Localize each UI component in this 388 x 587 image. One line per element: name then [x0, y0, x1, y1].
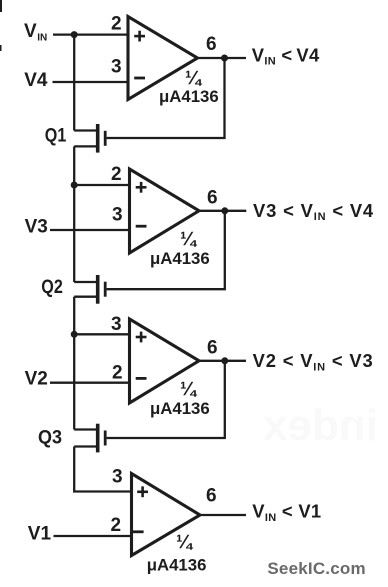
svg-text:6: 6: [206, 486, 217, 507]
svg-text:IN: IN: [37, 33, 47, 44]
svg-text:¼: ¼: [176, 532, 194, 553]
wire Q1 source to U2 rail: [73, 146, 75, 185]
wire V1 to U4 -input: [54, 535, 132, 537]
wire U3 output to Q3 gate: [107, 361, 225, 438]
svg-text:3: 3: [111, 314, 122, 335]
svg-text:V2 < VIN < V3: V2 < VIN < V3: [253, 350, 374, 373]
Q3 label: [38, 427, 62, 448]
U4 pin 3 label: [112, 467, 123, 488]
svg-text:¼: ¼: [180, 229, 198, 250]
op-amp U4: [132, 474, 201, 556]
transistor Q1: [74, 124, 105, 153]
U3 pin 2 label: [112, 363, 123, 384]
junction dot U3 +input: [71, 331, 78, 338]
svg-text:VIN < V1: VIN < V1: [252, 501, 321, 524]
SeekIC.com watermark: [267, 559, 365, 578]
svg-text:Q1: Q1: [45, 125, 67, 146]
U2 pin 3 label: [112, 205, 123, 226]
svg-text:2: 2: [111, 164, 122, 185]
svg-text:μA4136: μA4136: [147, 556, 207, 575]
svg-text:6: 6: [207, 338, 218, 359]
transistor Q2: [74, 275, 105, 304]
node result4 label VIN < V1: [252, 501, 321, 524]
U4 pin 2 label: [111, 515, 122, 536]
junction dot U3 output: [221, 357, 228, 364]
U1 pin 2 label: [111, 14, 122, 35]
svg-text:μA4136: μA4136: [159, 87, 219, 106]
junction dot U1 output: [221, 55, 228, 62]
node V3 label: [25, 217, 48, 238]
node result2 label V3 < VIN < V4: [253, 200, 374, 223]
svg-text:SeekIC.com: SeekIC.com: [267, 559, 365, 578]
U1 pin 3 label: [111, 57, 122, 78]
svg-text:2: 2: [111, 14, 122, 35]
svg-text:Q2: Q2: [41, 277, 63, 298]
svg-text:2: 2: [111, 515, 122, 536]
node V2 label: [25, 369, 48, 390]
svg-text:V3 < VIN < V4: V3 < VIN < V4: [253, 200, 374, 223]
op-amp U3: [130, 319, 200, 403]
ghost watermark (mirrored index text showing through page): [263, 401, 378, 450]
wire U2 output to Q2 gate: [107, 211, 225, 289]
wire V4 to U1 -input: [53, 81, 129, 83]
U2 pin 6 label: [207, 188, 218, 209]
svg-text:V2: V2: [25, 369, 48, 390]
wire rail U2 to Q2 drain: [73, 185, 75, 282]
U2 pin 2 label: [111, 164, 122, 185]
wire U1 output to Q1 gate: [107, 58, 225, 138]
U3 pin 3 label: [111, 314, 122, 335]
wire rail to U2 +input: [74, 184, 130, 186]
svg-text:3: 3: [112, 205, 123, 226]
wire Q2 source to U3 rail: [73, 297, 75, 335]
svg-text:2: 2: [112, 363, 123, 384]
node V4 label: [24, 70, 48, 91]
U3 pin 6 label: [207, 338, 218, 359]
wire rail to U3 +input: [74, 333, 130, 335]
wire VIN to U1 +input: [53, 33, 129, 35]
op-amp U2: [130, 169, 200, 253]
scan artifact left edge top: [0, 0, 2, 12]
node result1 label VIN < V4: [252, 44, 320, 67]
svg-text:¼: ¼: [180, 379, 198, 400]
U1 pin 6 label: [206, 34, 217, 55]
svg-text:V4: V4: [24, 70, 48, 91]
wire U4 output: [200, 514, 246, 516]
wire Q3 source to U4 +input: [74, 447, 132, 492]
wire rail U3 to Q3 drain: [73, 334, 75, 429]
scan artifact left edge: [0, 45, 2, 51]
U2 value 1/4 uA4136: [150, 229, 210, 268]
node VIN label: [24, 21, 47, 44]
svg-text:μA4136: μA4136: [150, 399, 210, 418]
svg-text:3: 3: [111, 57, 122, 78]
node result3 label V2 < VIN < V3: [253, 350, 374, 373]
svg-text:V3: V3: [25, 217, 48, 238]
Q1 label: [45, 125, 67, 146]
Q2 label: [41, 277, 63, 298]
wire VIN rail down to Q1 drain: [73, 35, 75, 131]
junction dot U2 output: [221, 207, 228, 214]
op-amp U1: [128, 17, 198, 100]
wire U3 output: [199, 360, 246, 362]
svg-text:¼: ¼: [185, 68, 203, 89]
U3 value 1/4 uA4136: [150, 379, 210, 418]
svg-text:6: 6: [207, 188, 218, 209]
wire U2 output: [199, 210, 246, 212]
junction dot U2 +input: [71, 182, 78, 189]
svg-text:V: V: [24, 21, 37, 42]
svg-text:VIN < V4: VIN < V4: [252, 44, 320, 67]
svg-text:Q3: Q3: [38, 427, 62, 448]
transistor Q3: [74, 424, 105, 453]
svg-text:6: 6: [206, 34, 217, 55]
junction dot VIN rail: [71, 31, 78, 38]
wire U1 output: [198, 57, 247, 59]
U1 value 1/4 uA4136: [159, 68, 219, 106]
wire V2 to U3 -input: [50, 382, 130, 384]
node V1 label: [28, 524, 52, 545]
svg-text:3: 3: [112, 467, 123, 488]
svg-text:V1: V1: [28, 524, 52, 545]
U4 pin 6 label: [206, 486, 217, 507]
U4 value 1/4 uA4136: [147, 532, 207, 575]
wire V3 to U2 -input: [50, 229, 130, 231]
svg-text:μA4136: μA4136: [150, 249, 210, 268]
svg-text:index: index: [263, 401, 378, 450]
